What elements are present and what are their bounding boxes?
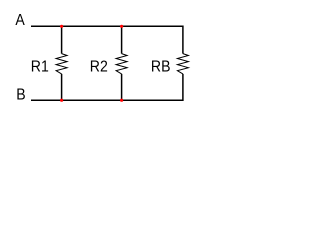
svg-text:R2: R2 (90, 58, 108, 76)
junction dot top R1 (60, 25, 63, 28)
wire: R1 top lead (61, 26, 63, 53)
junction dot bottom R2 (120, 99, 123, 102)
wire: top rail from node A with corner down to RB (31, 26, 183, 53)
svg-text:R1: R1 (31, 58, 49, 76)
svg-text:A: A (15, 11, 25, 29)
resistor R2 (116, 54, 127, 74)
svg-text:RB: RB (151, 58, 171, 76)
junction dot bottom R1 (60, 99, 63, 102)
wire: R1 bottom lead (61, 74, 63, 100)
wire: bottom rail from node B with corner up to RB (31, 74, 183, 100)
junction dot top R2 (120, 25, 123, 28)
svg-text:B: B (16, 86, 25, 104)
wire: R2 top lead (121, 26, 123, 53)
resistor RB (177, 54, 188, 74)
resistor R1 (56, 54, 67, 74)
wire: R2 bottom lead (121, 74, 123, 100)
